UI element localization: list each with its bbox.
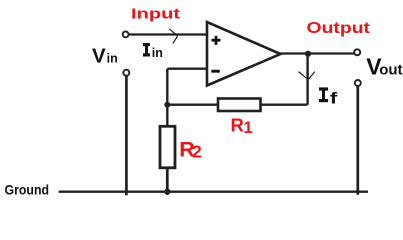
op-amp U1 triangle xyxy=(207,22,281,86)
terminal output (circle) xyxy=(354,49,360,55)
arrow current direction Iin xyxy=(169,29,177,44)
terminal Vout lower (circle) xyxy=(355,80,361,86)
junction minus node xyxy=(164,102,170,108)
wire minus input horizontal xyxy=(167,67,207,69)
svg-text:V: V xyxy=(92,44,106,67)
node Vout label xyxy=(366,53,402,79)
svg-text:2: 2 xyxy=(192,142,202,162)
svg-text:Output: Output xyxy=(307,20,371,37)
svg-text:Input: Input xyxy=(131,6,180,23)
svg-text:Ground: Ground xyxy=(5,182,50,198)
wire op-amp output xyxy=(280,52,354,54)
terminal input (circle) xyxy=(123,32,129,38)
wire Vin down to ground xyxy=(125,76,128,196)
arrow current direction If xyxy=(299,72,315,80)
svg-text:in: in xyxy=(107,51,118,65)
wire R2 bottom to ground xyxy=(166,168,169,195)
svg-text:R: R xyxy=(231,115,244,136)
wire minus node vertical (to R2 top) xyxy=(166,69,168,127)
resistor R1 xyxy=(218,99,261,112)
node Vin label xyxy=(92,44,118,67)
current Iin label xyxy=(143,45,150,55)
wire feedback drop xyxy=(306,54,308,105)
svg-text:1: 1 xyxy=(244,119,253,137)
terminal Vin (circle) xyxy=(123,70,129,76)
op-amp minus input marking xyxy=(211,70,220,73)
wire input to op-amp + xyxy=(129,33,207,35)
junction output node xyxy=(305,51,311,57)
op-amp plus input marking xyxy=(212,36,221,45)
wire Vout down to ground xyxy=(356,86,359,195)
svg-text:f: f xyxy=(330,90,338,107)
ground rail xyxy=(59,191,368,193)
junction R2 ground xyxy=(164,189,170,195)
svg-text:out: out xyxy=(379,61,402,78)
current If label xyxy=(319,89,328,101)
svg-text:in: in xyxy=(152,46,163,60)
resistor R2 xyxy=(160,126,175,168)
wire feedback horizontal xyxy=(167,104,307,106)
